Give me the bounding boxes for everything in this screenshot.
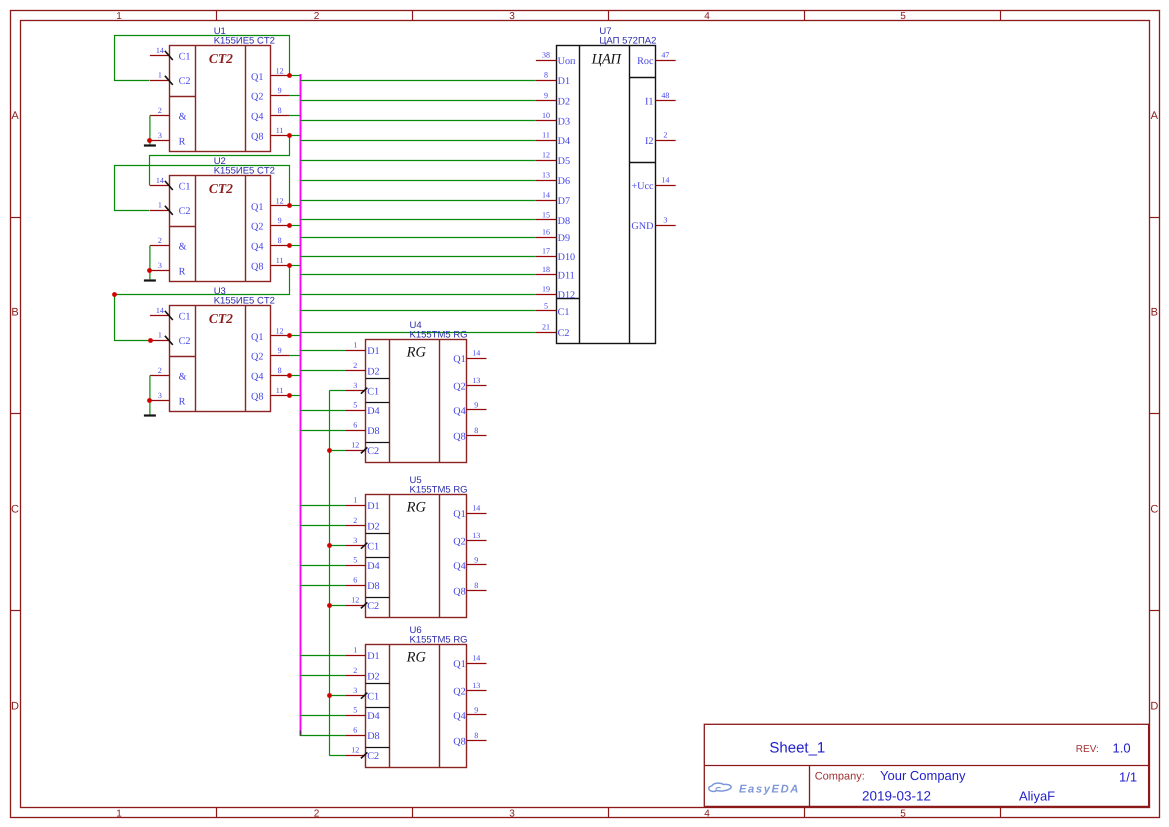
- wire U2 Q1 feedback loop to U2 C2: [115, 166, 290, 211]
- svg-text:13: 13: [472, 681, 480, 690]
- U7 pin 47 (Roc) stub: [656, 60, 676, 62]
- junction U2 Q2: [287, 223, 292, 228]
- title block frame: [704, 724, 1148, 806]
- svg-text:Q1: Q1: [453, 659, 465, 670]
- wire bus to U7 5: [300, 310, 536, 312]
- svg-text:1: 1: [158, 71, 162, 80]
- svg-text:9: 9: [278, 346, 282, 355]
- U7 pin 18 (D11) stub: [536, 274, 557, 276]
- svg-text:17: 17: [542, 247, 550, 256]
- svg-text:EasyEDA: EasyEDA: [739, 784, 800, 796]
- svg-text:D4: D4: [558, 136, 570, 147]
- wire U3 Q2 to bus: [289, 355, 300, 357]
- svg-text:Roc: Roc: [637, 56, 654, 67]
- svg-text:Q1: Q1: [251, 332, 263, 343]
- svg-text:11: 11: [276, 126, 284, 135]
- U1 pin 2 (&) stub: [150, 115, 170, 117]
- counter U2 K155IE5 CT2 body: [170, 176, 271, 282]
- U2 pin 8 (Q4) stub: [271, 245, 290, 247]
- U3 clock slash on C1: [165, 311, 173, 320]
- svg-text:14: 14: [661, 175, 669, 184]
- U7 pin 14 (+Ucc) stub: [656, 185, 676, 187]
- svg-text:Uoп: Uoп: [558, 56, 576, 67]
- U2 pin 3 (R) stub: [150, 270, 170, 272]
- junction clock chain at U4 C2: [327, 448, 332, 453]
- wire U2 Q4 to bus: [289, 245, 300, 247]
- svg-text:B: B: [11, 307, 18, 319]
- U4 pin 1 (D1) stub: [345, 350, 365, 352]
- svg-text:14: 14: [472, 503, 480, 512]
- svg-text:D8: D8: [558, 216, 570, 227]
- U5 clock slash on C1: [361, 543, 368, 549]
- svg-text:13: 13: [472, 376, 480, 385]
- svg-text:Q1: Q1: [251, 202, 263, 213]
- svg-text:14: 14: [156, 46, 164, 55]
- svg-text:K155ИЕ5 CT2: K155ИЕ5 CT2: [214, 36, 275, 47]
- junction U1 Q8: [287, 133, 292, 138]
- svg-text:Q1: Q1: [453, 354, 465, 365]
- U7 pin 12 (D5) stub: [536, 160, 557, 162]
- wire bus to U4 D2: [300, 370, 345, 372]
- svg-text:D2: D2: [558, 96, 570, 107]
- svg-text:Sheet_1: Sheet_1: [769, 740, 825, 757]
- wire clock chain vertical: [329, 391, 331, 756]
- U1 junction at R pin: [147, 138, 152, 143]
- U5 input section dividers: [366, 534, 390, 598]
- svg-text:12: 12: [276, 66, 284, 75]
- svg-text:Q8: Q8: [453, 587, 465, 598]
- U2 junction at R pin: [147, 268, 152, 273]
- U5 pin 12 (C2) stub: [345, 605, 365, 607]
- svg-text:5: 5: [900, 808, 906, 819]
- svg-text:D12: D12: [558, 290, 576, 301]
- svg-text:9: 9: [474, 555, 478, 564]
- svg-text:Q2: Q2: [251, 92, 263, 103]
- U5 pin 14 (Q1) stub: [467, 513, 487, 515]
- svg-text:3: 3: [158, 261, 162, 270]
- wire bus to U5 D8: [300, 585, 345, 587]
- U4 input section dividers: [366, 379, 390, 443]
- U7 pin 10 (D3) stub: [536, 120, 557, 122]
- svg-text:Your Company: Your Company: [880, 768, 966, 783]
- wire bus to U7 15: [300, 219, 536, 221]
- wire clock chain to U4 C2: [329, 450, 345, 452]
- svg-text:Q8: Q8: [251, 131, 263, 142]
- svg-text:1.0: 1.0: [1113, 741, 1131, 756]
- svg-text:K155ИЕ5 CT2: K155ИЕ5 CT2: [214, 296, 275, 307]
- svg-text:6: 6: [353, 726, 357, 735]
- svg-text:12: 12: [351, 441, 359, 450]
- U2 clock slash on C1: [165, 181, 173, 190]
- svg-text:13: 13: [472, 531, 480, 540]
- DAC U7 572PA2 body: [557, 46, 656, 344]
- junction U3 Q1: [287, 333, 292, 338]
- svg-text:3: 3: [509, 808, 515, 819]
- svg-text:A: A: [11, 110, 19, 122]
- svg-text:6: 6: [353, 421, 357, 430]
- wire bus to U7 8: [300, 80, 536, 82]
- U4 pin 2 (D2) stub: [345, 370, 365, 372]
- U6 pin 1 (D1) stub: [345, 655, 365, 657]
- svg-text:D2: D2: [367, 671, 379, 682]
- svg-text:D6: D6: [558, 176, 570, 187]
- wire U2 Q8 to bus: [289, 265, 300, 267]
- U3 junction at R pin: [147, 398, 152, 403]
- svg-text:8: 8: [544, 71, 548, 80]
- junction clock chain at U5 C2: [327, 603, 332, 608]
- U6 pin 8 (Q8) stub: [467, 740, 487, 742]
- U6 input section dividers: [366, 684, 390, 748]
- svg-text:8: 8: [278, 236, 282, 245]
- U4 clock slash on C2: [361, 447, 368, 453]
- svg-text:D: D: [1150, 701, 1158, 713]
- U2 ground symbol: [144, 279, 156, 281]
- wire bus to U7 11: [300, 140, 536, 142]
- U6 clock slash on C1: [361, 693, 368, 699]
- svg-text:19: 19: [542, 285, 550, 294]
- svg-text:8: 8: [474, 581, 478, 590]
- U7 pin 14 (D7) stub: [536, 200, 557, 202]
- wire bus to U7 16: [300, 237, 536, 239]
- svg-text:C1: C1: [179, 311, 191, 322]
- svg-text:I1: I1: [645, 96, 654, 107]
- svg-text:9: 9: [474, 705, 478, 714]
- frame column numbers: [116, 11, 906, 819]
- wire U3 Q8 to bus: [289, 395, 300, 397]
- svg-text:RG: RG: [406, 650, 427, 666]
- svg-text:14: 14: [542, 190, 550, 199]
- junction U3 Q8: [287, 393, 292, 398]
- U1 ground symbol: [144, 144, 156, 146]
- svg-text:14: 14: [156, 306, 164, 315]
- svg-text:+Ucc: +Ucc: [631, 181, 654, 192]
- svg-text:&: &: [179, 111, 187, 122]
- svg-text:K155ИЕ5 CT2: K155ИЕ5 CT2: [214, 166, 275, 177]
- svg-text:10: 10: [542, 111, 550, 120]
- svg-text:12: 12: [542, 151, 550, 160]
- U1 pin 12 (Q1) stub: [271, 75, 290, 77]
- U5 pin 2 (D2) stub: [345, 525, 365, 527]
- U1 pin 14 (C1) stub: [150, 55, 170, 57]
- junction U2 Q8: [287, 263, 292, 268]
- counter U3 K155IE5 CT2 body: [170, 306, 271, 412]
- junction clock chain at U6 C1: [327, 693, 332, 698]
- U2 pin 2 (&) stub: [150, 245, 170, 247]
- junction U3 Q4: [287, 373, 292, 378]
- U1 clock slash on C2: [165, 76, 173, 85]
- svg-text:D4: D4: [367, 711, 379, 722]
- U5 pin 9 (Q4) stub: [467, 564, 487, 566]
- svg-text:1: 1: [353, 341, 357, 350]
- junction clock chain at U5 C1: [327, 543, 332, 548]
- svg-text:D3: D3: [558, 116, 570, 127]
- svg-text:D1: D1: [367, 651, 379, 662]
- svg-text:Q2: Q2: [453, 687, 465, 698]
- U2 clock slash on C2: [165, 206, 173, 215]
- svg-text:C2: C2: [179, 336, 191, 347]
- svg-text:C1: C1: [367, 387, 379, 398]
- svg-text:3: 3: [158, 391, 162, 400]
- wire bus to U4 D4: [300, 410, 345, 412]
- svg-text:5: 5: [353, 401, 357, 410]
- svg-text:D1: D1: [367, 501, 379, 512]
- svg-text:C1: C1: [179, 181, 191, 192]
- svg-text:C2: C2: [179, 206, 191, 217]
- wire bus to U7 10: [300, 120, 536, 122]
- U4 pin 3 (C1) stub: [345, 390, 365, 392]
- wire bus to U7 12: [300, 160, 536, 162]
- U3 pin 3 (R) stub: [150, 400, 170, 402]
- wire U1 Q8 to U2 C1: [150, 136, 290, 186]
- U7 pin 16 (D9) stub: [536, 237, 557, 239]
- U5 pin 8 (Q8) stub: [467, 590, 487, 592]
- svg-text:C: C: [11, 503, 19, 515]
- svg-text:1: 1: [158, 331, 162, 340]
- svg-text:D8: D8: [367, 581, 379, 592]
- svg-text:Q4: Q4: [251, 112, 263, 123]
- wire bus to U7 19: [300, 294, 536, 296]
- svg-text:47: 47: [661, 51, 669, 60]
- svg-text:4: 4: [704, 808, 710, 819]
- svg-text:&: &: [179, 371, 187, 382]
- U7 pin 38 (Uo&#x43F;) stub: [536, 60, 557, 62]
- svg-text:Q2: Q2: [251, 222, 263, 233]
- U3 pin 12 (Q1) stub: [271, 335, 290, 337]
- svg-text:2: 2: [353, 666, 357, 675]
- U3 pin 14 (C1) stub: [150, 315, 170, 317]
- wire bus to U5 D2: [300, 525, 345, 527]
- U3 pin 1 (C2) stub: [150, 340, 170, 342]
- svg-text:R: R: [179, 396, 186, 407]
- svg-text:Q1: Q1: [453, 509, 465, 520]
- svg-text:R: R: [179, 266, 186, 277]
- wire bus to U6 D8: [300, 735, 345, 737]
- U3 pin 11 (Q8) stub: [271, 395, 290, 397]
- svg-text:GND: GND: [631, 221, 653, 232]
- svg-text:3: 3: [663, 215, 667, 224]
- EasyEDA logo: [709, 783, 731, 791]
- svg-text:4: 4: [704, 11, 710, 22]
- wire clock chain to U5 C1: [329, 545, 345, 547]
- U5 pin 6 (D8) stub: [345, 585, 365, 587]
- svg-text:48: 48: [661, 91, 669, 100]
- U3 pin 2 (&) stub: [150, 375, 170, 377]
- svg-text:2: 2: [158, 366, 162, 375]
- svg-text:8: 8: [474, 731, 478, 740]
- svg-text:9: 9: [474, 400, 478, 409]
- svg-text:CT2: CT2: [209, 51, 233, 66]
- svg-text:14: 14: [156, 176, 164, 185]
- svg-text:C2: C2: [367, 751, 379, 762]
- svg-text:9: 9: [544, 91, 548, 100]
- junction U2 Q4: [287, 243, 292, 248]
- U7 pin 13 (D6) stub: [536, 180, 557, 182]
- register U6 K155TM5 RG body: [366, 645, 467, 768]
- svg-text:Q8: Q8: [453, 737, 465, 748]
- svg-text:3: 3: [353, 686, 357, 695]
- svg-text:D8: D8: [367, 731, 379, 742]
- svg-text:12: 12: [351, 596, 359, 605]
- svg-text:Q4: Q4: [453, 711, 465, 722]
- svg-text:3: 3: [353, 381, 357, 390]
- junction at U3 C2 pin: [148, 338, 153, 343]
- U3 pin 8 (Q4) stub: [271, 375, 290, 377]
- svg-text:C2: C2: [367, 601, 379, 612]
- U3 ground symbol: [144, 414, 156, 416]
- svg-text:15: 15: [542, 210, 550, 219]
- U1 clock slash on C1: [165, 51, 173, 60]
- svg-text:1: 1: [116, 808, 122, 819]
- svg-text:3: 3: [353, 536, 357, 545]
- svg-text:Q8: Q8: [453, 432, 465, 443]
- U2 pin 1 (C2) stub: [150, 210, 170, 212]
- svg-text:2: 2: [158, 106, 162, 115]
- svg-text:1: 1: [158, 201, 162, 210]
- svg-text:8: 8: [278, 106, 282, 115]
- svg-text:2019-03-12: 2019-03-12: [862, 789, 931, 804]
- svg-text:D7: D7: [558, 196, 570, 207]
- wire bus to U4 D1: [300, 350, 345, 352]
- svg-text:5: 5: [353, 556, 357, 565]
- svg-text:D1: D1: [558, 76, 570, 87]
- svg-text:3: 3: [158, 131, 162, 140]
- U7 pin 5 (C1) stub: [536, 310, 557, 312]
- U6 pin 12 (C2) stub: [345, 755, 365, 757]
- svg-text:2: 2: [663, 131, 667, 140]
- U4 pin 9 (Q4) stub: [467, 409, 487, 411]
- svg-text:ЦАП 572ПА2: ЦАП 572ПА2: [599, 36, 656, 47]
- svg-text:6: 6: [353, 576, 357, 585]
- svg-text:C2: C2: [558, 328, 570, 339]
- U6 pin 3 (C1) stub: [345, 695, 365, 697]
- svg-text:C1: C1: [179, 51, 191, 62]
- junction U1 Q1: [287, 73, 292, 78]
- svg-text:ЦАП: ЦАП: [591, 51, 623, 67]
- svg-text:A: A: [1151, 110, 1159, 122]
- wire U3 Q1 to bus: [289, 335, 300, 337]
- vertical data bus: [300, 74, 302, 730]
- wire U1 Q4 to bus: [289, 115, 300, 117]
- register U4 K155TM5 RG body: [366, 340, 467, 463]
- U6 pin 13 (Q2) stub: [467, 690, 487, 692]
- U5 pin 5 (D4) stub: [345, 565, 365, 567]
- wire U2 Q8 to U3 C2: [115, 266, 290, 341]
- svg-text:5: 5: [544, 301, 548, 310]
- wire bus to U6 D2: [300, 675, 345, 677]
- svg-text:D4: D4: [367, 406, 379, 417]
- svg-text:D8: D8: [367, 426, 379, 437]
- svg-text:C2: C2: [367, 446, 379, 457]
- svg-text:C1: C1: [367, 542, 379, 553]
- svg-text:1: 1: [116, 11, 122, 22]
- svg-text:K155TM5 RG: K155TM5 RG: [410, 330, 468, 341]
- svg-text:21: 21: [542, 322, 550, 331]
- wire clock chain to U5 C2: [329, 605, 345, 607]
- U6 pin 14 (Q1) stub: [467, 663, 487, 665]
- svg-text:1: 1: [353, 646, 357, 655]
- svg-text:CT2: CT2: [209, 311, 233, 326]
- svg-text:Q4: Q4: [453, 561, 465, 572]
- wire U2 Q2 to bus: [289, 225, 300, 227]
- svg-text:AliyaF: AliyaF: [1019, 789, 1055, 804]
- svg-text:13: 13: [542, 171, 550, 180]
- wire bus to U7 21: [300, 332, 536, 334]
- U4 pin 5 (D4) stub: [345, 410, 365, 412]
- counter U1 K155IE5 CT2 body: [170, 46, 271, 152]
- svg-text:D9: D9: [558, 233, 570, 244]
- svg-text:Company:: Company:: [815, 771, 865, 783]
- svg-text:C2: C2: [179, 76, 191, 87]
- svg-text:1: 1: [353, 496, 357, 505]
- svg-text:2: 2: [158, 236, 162, 245]
- svg-text:12: 12: [351, 746, 359, 755]
- U7 pin 8 (D1) stub: [536, 80, 557, 82]
- svg-text:16: 16: [542, 228, 550, 237]
- U7 pin 11 (D4) stub: [536, 140, 557, 142]
- wire bus to U4 D8: [300, 430, 345, 432]
- wire clock chain to U4 C1: [329, 390, 345, 392]
- U7 pin 2 (I2) stub: [656, 140, 676, 142]
- wire U3 Q4 to bus: [289, 375, 300, 377]
- U7 pin 48 (I1) stub: [656, 100, 676, 102]
- U6 pin 6 (D8) stub: [345, 735, 365, 737]
- svg-text:D10: D10: [558, 252, 576, 263]
- svg-text:1/1: 1/1: [1119, 770, 1137, 785]
- U5 pin 13 (Q2) stub: [467, 540, 487, 542]
- svg-text:B: B: [1151, 307, 1158, 319]
- svg-text:18: 18: [542, 265, 550, 274]
- svg-text:Q4: Q4: [251, 242, 263, 253]
- wire bus to U5 D4: [300, 565, 345, 567]
- svg-text:D2: D2: [367, 366, 379, 377]
- svg-text:8: 8: [474, 426, 478, 435]
- svg-text:D4: D4: [367, 561, 379, 572]
- U2 pin 14 (C1) stub: [150, 185, 170, 187]
- svg-text:2: 2: [353, 516, 357, 525]
- svg-text:11: 11: [276, 256, 284, 265]
- U1 pin 1 (C2) stub: [150, 80, 170, 82]
- svg-text:K155TM5 RG: K155TM5 RG: [410, 485, 468, 496]
- wire U1 Q1 feedback loop to U1 C2: [115, 36, 290, 81]
- svg-text:14: 14: [472, 653, 480, 662]
- svg-text:2: 2: [353, 361, 357, 370]
- wire U1 Q2 to bus: [289, 95, 300, 97]
- svg-text:9: 9: [278, 216, 282, 225]
- svg-text:14: 14: [472, 348, 480, 357]
- wire bus to U6 D4: [300, 715, 345, 717]
- U7 pin 21 (C2) stub: [536, 332, 557, 334]
- svg-text:Q2: Q2: [453, 382, 465, 393]
- wire bus to U7 14: [300, 200, 536, 202]
- svg-text:8: 8: [278, 366, 282, 375]
- U1 wire pin2 to pin3 (enable to reset): [149, 116, 151, 145]
- U4 pin 14 (Q1) stub: [467, 358, 487, 360]
- svg-text:11: 11: [276, 386, 284, 395]
- U3 pin 9 (Q2) stub: [271, 355, 290, 357]
- U7 pin 17 (D10) stub: [536, 256, 557, 258]
- wire clock chain to U6 C1: [329, 695, 345, 697]
- U2 wire pin2 to pin3 (enable to reset): [149, 246, 151, 280]
- U3 wire pin2 to pin3 (enable to reset): [149, 376, 151, 415]
- wire bus to U7 18: [300, 274, 536, 276]
- svg-text:REV:: REV:: [1076, 744, 1099, 755]
- U7 pin 3 (GND) stub: [656, 225, 676, 227]
- junction U2 Q1: [287, 203, 292, 208]
- wire bus to U7 13: [300, 180, 536, 182]
- svg-text:Q1: Q1: [251, 72, 263, 83]
- svg-text:Q4: Q4: [453, 406, 465, 417]
- bus end cap: [300, 730, 302, 736]
